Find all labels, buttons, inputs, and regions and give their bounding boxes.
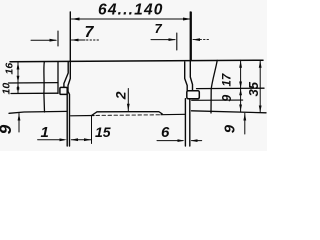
- dim 17/9 line: [240, 60, 242, 111]
- dim 1 arrowheads: [60, 138, 67, 141]
- right foot extension line: [192, 99, 243, 101]
- left lead left face: [64, 62, 68, 87]
- dim 6 left line: [157, 140, 183, 142]
- center bump: [92, 112, 163, 116]
- svg-text:2: 2: [112, 91, 128, 100]
- svg-text:1: 1: [41, 124, 49, 141]
- right lead lower left face: [184, 99, 186, 146]
- dim 64...140 right extension: [190, 12, 192, 61]
- left seating line: [9, 111, 67, 113]
- dim 64...140 left arrowhead: [71, 18, 79, 21]
- dim 7 right outer line: [151, 39, 175, 41]
- dim 7 left stub extension: [57, 31, 59, 46]
- dim 9 bottom-left arrowhead: [18, 114, 21, 121]
- dim 2 arrowhead: [127, 104, 130, 111]
- dim 64...140 line: [72, 18, 192, 20]
- top surface line: [10, 60, 263, 62]
- dim 16/10 line: [17, 62, 19, 93]
- dim 7 left inner line: [72, 39, 86, 41]
- dim 9 lower-right line: [244, 113, 246, 134]
- dim 7 left arrowheads: [50, 39, 58, 42]
- dim 15 right arrowhead: [84, 138, 91, 141]
- dim 9 lower-right arrowhead: [243, 113, 246, 120]
- right lead lower right face: [189, 99, 191, 146]
- dim 17 arrowheads: [239, 61, 242, 68]
- left ledge line: [9, 82, 59, 84]
- dim 7 right arrowheads: [169, 38, 177, 41]
- dim 16 arrowheads: [17, 62, 20, 69]
- right lead foot: [187, 91, 200, 99]
- dim 35 line: [259, 60, 261, 112]
- left body right edge: [57, 62, 59, 94]
- left body inner edge: [43, 62, 46, 112]
- svg-text:9: 9: [221, 124, 238, 133]
- dim 6 right line: [192, 140, 202, 142]
- svg-text:16: 16: [4, 63, 16, 75]
- svg-text:7: 7: [155, 21, 163, 36]
- right lead left face: [185, 62, 188, 91]
- left lead right face: [68, 12, 70, 146]
- svg-text:15: 15: [95, 124, 111, 140]
- right lead right face: [190, 12, 192, 91]
- dim 1 line: [38, 139, 64, 141]
- center base line hidden segment: [96, 114, 161, 117]
- dim 6 arrowheads: [178, 139, 185, 142]
- dim 15 extension line: [91, 116, 93, 144]
- right mid line: [197, 87, 265, 89]
- center base line left segment: [71, 115, 94, 117]
- svg-text:10: 10: [1, 83, 13, 95]
- dim 35 arrowheads: [259, 61, 262, 68]
- svg-text:64...140: 64...140: [98, 2, 164, 19]
- dim 9 bottom-left line: [18, 113, 20, 132]
- left lead lower left face: [66, 94, 68, 146]
- dim 7 right stub extension: [176, 33, 178, 50]
- center base line right segment: [161, 113, 185, 115]
- dim 15 line: [71, 139, 91, 141]
- right seating line: [192, 111, 267, 113]
- svg-text:6: 6: [161, 124, 170, 141]
- dim 2 arrow line: [127, 89, 129, 111]
- svg-text:9: 9: [0, 124, 15, 134]
- svg-text:7: 7: [85, 24, 95, 41]
- left lead foot: [60, 87, 67, 94]
- svg-text:35: 35: [246, 81, 261, 96]
- dim 7 left outer line: [31, 39, 56, 41]
- dim 9 upper-right arrowheads: [239, 89, 242, 95]
- dim 7 right inner dashes: [193, 39, 210, 41]
- right body edge: [211, 60, 217, 113]
- dim 10 arrowheads: [17, 83, 20, 89]
- dim 64...140 right arrowhead: [183, 18, 191, 21]
- dim 7 left inner dashes: [87, 39, 100, 41]
- svg-text:17: 17: [221, 73, 233, 86]
- svg-text:9: 9: [220, 95, 234, 102]
- left bottom line: [11, 92, 58, 94]
